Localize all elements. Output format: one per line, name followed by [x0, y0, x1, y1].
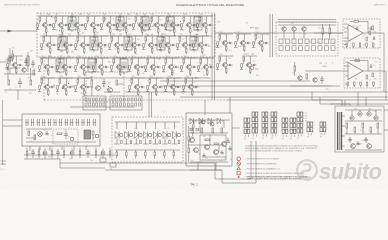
dashed vertical left of box A [43, 57, 45, 100]
transistor stage TR15 [91, 34, 108, 54]
transistor stage TR33 [146, 76, 163, 96]
below-keyboard capacitor 6 [57, 149, 59, 152]
box A junction 10 [151, 18, 152, 19]
switch contact S2a [286, 39, 290, 44]
below-keyboard resistor 7 [63, 151, 65, 155]
oscillator transistor TR35 [108, 88, 113, 93]
transistor stage TR1 [36, 14, 53, 34]
wire left vertical a [7, 66, 9, 80]
connector stack P5 [282, 118, 288, 140]
IC1 cap a [370, 26, 372, 28]
keyboard sub resistor [57, 133, 62, 135]
transistor stage TR18 [142, 34, 159, 54]
audio wire v3 [188, 126, 190, 136]
transistor stage TR22 [38, 56, 55, 76]
wire main signal y33 [215, 32, 343, 34]
keyboard resistor KR2 [34, 135, 36, 140]
box A junction 6 [152, 25, 153, 26]
keyboard cell KB2 [95, 134, 98, 137]
IF transformer can T4 [166, 15, 174, 32]
rectifier diode D23 [374, 116, 378, 120]
IC2 pin component 5 [373, 82, 375, 85]
power output wire right [384, 109, 388, 111]
power step wire b [320, 103, 350, 105]
switch contact S7b [318, 46, 322, 51]
mid rows junction 3 [62, 88, 63, 89]
display resistor RD4 [145, 152, 147, 156]
connector stack P4 [271, 112, 277, 140]
box A junction 2 [118, 19, 119, 20]
bus wire y81 [160, 80, 310, 82]
switch contact S1b [279, 46, 283, 51]
power wire mid h [345, 120, 382, 122]
IF transformer can T9 [157, 35, 165, 52]
transistor stage TR9 [164, 14, 181, 34]
IC1 pin component 3 [359, 43, 361, 46]
switch contact S8b [325, 46, 329, 51]
keyboard resistor KR1 [28, 131, 30, 136]
below-keyboard capacitor 10 [87, 149, 89, 152]
IF transformer can T3 [141, 15, 149, 32]
below-keyboard resistor 5 [51, 151, 53, 155]
display driver diode cell D5 [154, 122, 156, 129]
wire switch bank out [314, 32, 343, 34]
connector stack P2 [252, 112, 258, 140]
paper grain overlay [0, 0, 388, 190]
key switch contact K3 [36, 119, 38, 126]
box A junction 14 [59, 30, 60, 31]
left margin line [2, 100, 4, 165]
keyboard wire mid [26, 128, 52, 130]
J2 contact 3 [120, 98, 122, 101]
keyboard capacitor KC1 [46, 131, 48, 134]
op-amp U2 feedback loop [350, 60, 368, 62]
mid rows junction 11 [195, 77, 196, 78]
switch rotor transistor TR43 [302, 27, 306, 31]
mid rows junction 4 [171, 74, 172, 75]
key switch contact K8 [64, 119, 66, 126]
resistor R43 [294, 66, 296, 71]
box A junction 12 [162, 34, 163, 35]
IF transformer can T10 [190, 35, 198, 52]
IF transformer can T1 [68, 15, 76, 32]
switch contact S4b [299, 46, 303, 51]
mid rows junction 6 [54, 85, 55, 86]
IF transformer can T13 [120, 57, 128, 74]
IC1 pin component 1 [346, 43, 348, 46]
below-keyboard resistor 3 [38, 151, 40, 155]
key switch contact K5 [47, 119, 49, 126]
switch contact S6b [312, 46, 316, 51]
connector box J2 [110, 96, 142, 110]
display driver diode cell D3 [135, 122, 137, 129]
wire below keyboard [24, 154, 115, 156]
audio resistor RA8 [188, 148, 190, 153]
interconnect stage F2 [110, 163, 116, 167]
wire left column lower [4, 89, 36, 91]
audio driver cell Q1 [190, 118, 193, 124]
power wire verticals [351, 110, 353, 116]
resistor R42 [306, 74, 308, 79]
display driver diode cell D1 [116, 122, 118, 129]
wire row4 rail [40, 77, 210, 79]
power resistor R50 [346, 123, 348, 128]
transistor stage TR11 [196, 14, 213, 34]
transistor stage TR20 [176, 34, 193, 54]
key switch contact K1 [25, 119, 27, 126]
bus wire y97 [180, 96, 388, 98]
op-amp U2 output wire [363, 70, 380, 72]
key switch contact K9 [70, 119, 72, 126]
bus wire y92 [125, 91, 388, 93]
power step wire d [365, 97, 367, 106]
box A junction 4 [174, 34, 175, 35]
transistor stage TR16 [108, 34, 125, 54]
IC1 internal resistor b [372, 26, 374, 30]
power step wire c [357, 92, 359, 106]
audio transistor Q8 [214, 150, 219, 155]
switch contact S9b [331, 46, 335, 51]
long wire to power supply 2 [105, 169, 222, 171]
display resistor RD6 [164, 152, 166, 156]
transistor stage TR30 [56, 76, 73, 96]
supply rail wire box A top [40, 15, 212, 17]
transistor stage TR36 [216, 32, 233, 52]
transistor stage TR5 [100, 14, 117, 34]
audio capacitor CA4 [229, 146, 231, 149]
audio resistor RA5 [205, 139, 210, 141]
vertical bus from IC2 [385, 71, 387, 100]
transistor stage TR24 [74, 56, 91, 76]
below-keyboard diode 4 [43, 151, 47, 155]
rectifier diode D22 [367, 112, 371, 116]
wire cluster below F [290, 85, 330, 87]
wire oscillator out [118, 83, 124, 85]
dashed bus y100 left [44, 99, 227, 101]
audio cell row top [188, 119, 230, 121]
left column capacitor C4 [25, 58, 27, 61]
IF transformer can T12 [88, 57, 96, 74]
IC2 internal resistor a [366, 75, 368, 79]
wire switch bank top [278, 24, 336, 26]
audio driver cell Q3 [208, 118, 211, 124]
transistor TR45 [313, 78, 317, 82]
switch contact S9a [331, 39, 335, 44]
audio resistor RA6 [214, 143, 219, 145]
switch contact S5b [305, 46, 309, 51]
wire below keyboard lower [24, 158, 60, 160]
switch contact S6a [312, 39, 316, 44]
display driver diode cell D6 [164, 122, 166, 129]
left column wire [5, 67, 20, 69]
below-keyboard resistor 9 [79, 151, 81, 155]
IC2 pin component 3 [360, 82, 362, 85]
J1 contact 1 [85, 98, 87, 101]
filter capacitor C41 [357, 141, 359, 144]
IC2 pin component 4 [366, 82, 368, 85]
transistor stage TR26 [110, 56, 127, 76]
mid rows junction 1 [87, 78, 88, 79]
switch contact S1a [279, 39, 283, 44]
transistor stage TR29 [38, 76, 55, 96]
audio transistor Q9 [222, 142, 227, 147]
connector stack P7 [297, 112, 303, 140]
left column resistor R8 [33, 70, 35, 75]
key switch contact K2 [31, 119, 33, 126]
below-keyboard diode 12 [101, 151, 105, 155]
below-keyboard resistor 13 [109, 151, 111, 155]
audio capacitor CA1 [227, 138, 229, 141]
transistor stage TR19 [159, 34, 176, 54]
keyboard sub transistor [70, 137, 74, 141]
transistor stage TR12 [40, 34, 57, 54]
inter-row wires box A [45, 34, 47, 36]
J1 contact 2 [89, 98, 91, 101]
transistor stage TR4 [84, 14, 101, 34]
display box top rail [115, 121, 180, 123]
capacitor C30 [321, 76, 323, 79]
audio transistor Q5 [190, 138, 195, 143]
capacitor C2 [19, 78, 21, 82]
transistor stage TR39 [216, 54, 233, 74]
audio transistor Q11 [210, 122, 214, 126]
switch contact S8a [325, 39, 329, 44]
audio inner sub-box [200, 135, 226, 160]
switch rotor transistor TR42 [292, 27, 296, 31]
IC1 dashed box [343, 19, 380, 48]
transistor stage TR10 [180, 14, 197, 34]
transistor stage TR30 [180, 56, 197, 76]
J2 contact 5 [127, 98, 129, 101]
transformer T1 core [338, 112, 340, 150]
mid rows junction 9 [103, 86, 104, 87]
IC1 internal resistor a [366, 37, 368, 41]
keyboard dark component [84, 130, 91, 139]
op-amp U1 compensation capacitor [356, 26, 358, 28]
audio transistor Q7 [205, 145, 210, 150]
transistor stage TR37 [234, 32, 251, 52]
transistor stage TR14 [74, 34, 91, 54]
antenna arrow [8, 30, 13, 33]
wire left column bus [4, 73, 36, 75]
switch bank dashed box [276, 22, 338, 56]
op-amp U2 input wires [305, 70, 348, 72]
transistor stage TR28 [144, 56, 161, 76]
audio diode DA2 [196, 128, 199, 131]
power resistor R54 [377, 123, 379, 128]
op-amp U1 output wire [363, 32, 380, 34]
wire drop x345 [344, 100, 346, 106]
connector box J1 [83, 96, 106, 110]
audio wire below box [197, 166, 199, 170]
shield double line vertical [211, 14, 213, 100]
transformer secondary taps [342, 115, 346, 117]
connector stack P9 [320, 122, 326, 139]
transistor stage TR34 [164, 76, 181, 96]
IC1 cap b [373, 36, 375, 38]
audio capacitor CA3 [221, 150, 223, 153]
box A junction 13 [180, 21, 181, 22]
audio wire h3 [202, 156, 226, 158]
key switch contact K4 [42, 119, 44, 126]
bus wire y86 [160, 85, 340, 87]
left margin tick [1, 160, 7, 162]
J2 contact 2 [116, 98, 118, 101]
audio driver cell Q2 [199, 118, 202, 124]
IF transformer can T11 [56, 57, 64, 74]
display resistor RD3 [135, 152, 137, 156]
connector stack P6 [290, 118, 296, 140]
IC1 resistor c [369, 31, 371, 35]
IC1 left pin stubs [344, 23, 347, 25]
IC1 pin component 2 [353, 43, 355, 46]
antenna input wire [0, 30, 37, 32]
display resistor RD5 [154, 152, 156, 156]
transistor stage TR13 [57, 34, 74, 54]
oscillator resistor R30 [116, 80, 118, 85]
resistor R6 [30, 80, 32, 85]
power wire top h1 [345, 109, 382, 111]
audio diode DA1 [190, 128, 193, 131]
box A junction 3 [151, 34, 152, 35]
switch contact S4a [299, 39, 303, 44]
display resistor RD2 [126, 152, 128, 156]
keyboard dashed sub-box [53, 129, 78, 144]
power step wire a [312, 99, 342, 101]
transistor stage TR38 [252, 32, 269, 52]
keyboard lamp circle [38, 132, 43, 137]
IF transformer can T2 [116, 15, 124, 32]
switch rotor transistor TR41 [282, 27, 286, 31]
transistor stage TR40 [240, 54, 257, 74]
op-amp U1 input wires [344, 27, 348, 29]
key switch contact K12 [87, 119, 89, 126]
transistor stage TR7 [132, 14, 149, 34]
connector stack P8 [307, 122, 313, 139]
audio resistor RA3 [221, 128, 223, 133]
watermark logo circle [297, 160, 317, 180]
box A junction 7 [147, 35, 148, 36]
display driver diode cell D4 [145, 122, 147, 129]
audio resistor RA1 [201, 128, 203, 133]
audio resistor RA2 [212, 128, 214, 133]
audio wire out right [232, 127, 240, 129]
IF transformer can T6 [58, 35, 66, 52]
wire drop x205 [204, 100, 206, 115]
left column resistor R7 [12, 54, 14, 59]
keyboard input wires [3, 119, 22, 121]
transistor stage TR3 [68, 14, 85, 34]
J1 contact 6 [103, 98, 105, 101]
audio wire v1 [209, 135, 211, 145]
IC2 cap a [370, 64, 372, 66]
keyboard sub capacitor [65, 131, 67, 134]
audio transistor Q6 [194, 148, 199, 153]
IF transformer can T7 [90, 35, 98, 52]
key switch contact K10 [75, 119, 77, 126]
wire drop x320 [319, 97, 321, 104]
box A junction 5 [196, 34, 197, 35]
transistor stage TR35 [182, 76, 199, 96]
wire row3 rail [40, 57, 210, 59]
audio resistor RA7 [188, 136, 190, 141]
left column transistor TR20a [22, 68, 26, 72]
capacitor C2b [32, 60, 34, 63]
power transistor Q20 [351, 144, 356, 149]
box A junction 1 [50, 24, 51, 25]
wire drop x312 [311, 92, 313, 100]
oscillator dashed sub-box [86, 72, 124, 102]
mid rows junction 7 [68, 83, 69, 84]
transistor stage TR32 [128, 76, 145, 96]
mid rows junction 2 [151, 69, 152, 70]
wire drop x149 pair [148, 92, 150, 117]
power resistor R52 [362, 123, 364, 128]
audio wire h1 [188, 132, 228, 134]
switch contact S3b [292, 46, 296, 51]
oscillator coil L2 [91, 80, 93, 87]
wire stub left edge [0, 61, 8, 63]
rectifier diode D20 [350, 116, 354, 120]
wire IC1 output to edge [380, 32, 384, 34]
mid rows junction 5 [172, 72, 173, 73]
keyboard stubs below [29, 146, 31, 151]
power wire bottom h [345, 149, 382, 151]
switch contact S5a [305, 39, 309, 44]
transistor stage TR8 [148, 14, 165, 34]
wire switch bank top 2 [278, 19, 336, 21]
op-amp U2 triangle [348, 63, 363, 80]
shield double line vertical 2 [269, 14, 271, 57]
J2 contact 4 [123, 98, 125, 101]
transistor stage TR27 [128, 56, 145, 76]
box A junction 8 [51, 16, 52, 17]
display driver dashed box [112, 117, 183, 162]
key switch contact K6 [53, 119, 55, 126]
transistor TR44 [298, 76, 302, 80]
J1 contact 3 [92, 98, 94, 101]
op-amp U1 feedback resistor [354, 21, 359, 23]
below-keyboard resistor 1 [26, 151, 28, 155]
bus wire y100 right [227, 99, 388, 101]
IC2 left pin stubs [345, 61, 348, 63]
audio capacitor CA2 [203, 153, 205, 156]
resistor R40 vertical [322, 28, 324, 34]
box A junction 11 [142, 27, 143, 28]
switch contact S2b [286, 46, 290, 51]
resistor R41 vertical [329, 28, 331, 34]
IC2 resistor c [372, 73, 374, 77]
transistor stage TR21 [192, 34, 209, 54]
key switch contact K13 [92, 119, 94, 126]
filter capacitor C40 [349, 137, 351, 140]
connector stack P3 [262, 112, 268, 140]
mid rows junction 12 [108, 86, 109, 87]
oscillator capacitor C9 [103, 79, 105, 82]
transistor stage TR23 [56, 56, 73, 76]
display driver diode cell D7 [174, 122, 176, 129]
bus wire y104 [330, 103, 388, 105]
vertical bus from IC1 [383, 33, 385, 92]
audio driver cell Q4 [217, 118, 220, 124]
oscillator transistor TR34 [96, 86, 101, 91]
IC1 pin component 4 [366, 43, 368, 46]
key switch contact K7 [59, 119, 61, 126]
keyboard unit box [22, 114, 100, 146]
note marker 4 [237, 172, 240, 175]
IC1 pin component 5 [372, 43, 374, 46]
transistor stage TR31 [74, 76, 91, 96]
